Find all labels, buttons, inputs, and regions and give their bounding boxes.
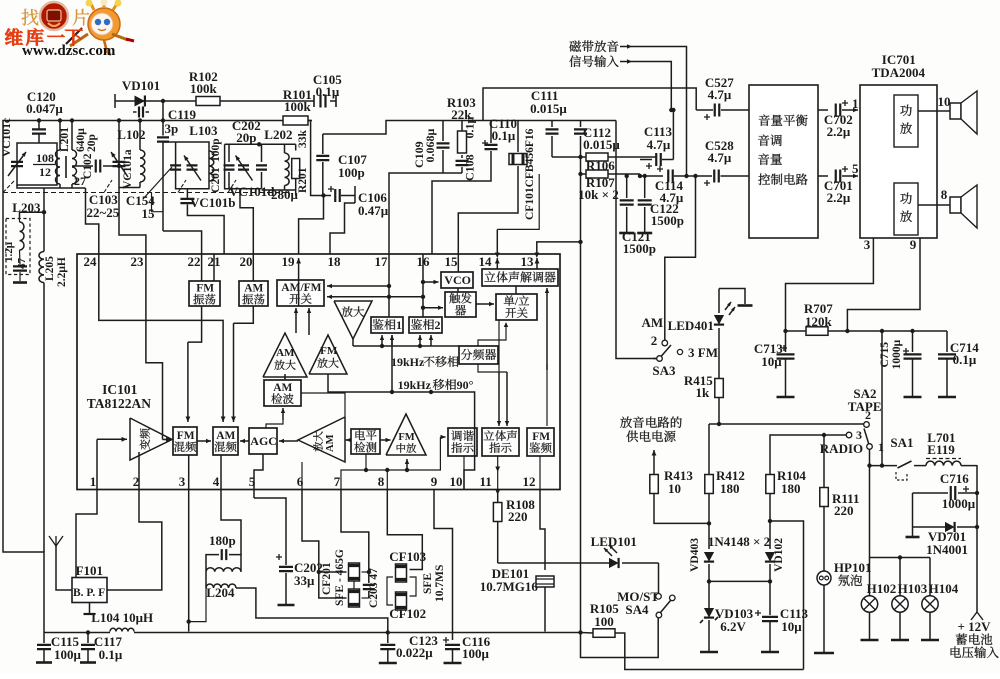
block AGC (249, 428, 277, 454)
pin 6 label bottom (297, 474, 304, 489)
svg-text:L102: L102 (117, 127, 145, 142)
svg-text:4: 4 (213, 474, 220, 489)
svg-text:CF103: CF103 (389, 549, 426, 564)
wire AGC pin5 (254, 454, 263, 489)
zener VD103 6.2V (700, 581, 754, 652)
svg-text:10.7MG16: 10.7MG16 (480, 579, 539, 594)
svg-text:0.1μ: 0.1μ (99, 647, 123, 662)
capacitor C203 47 (363, 568, 380, 608)
capacitor C715 1000u (879, 331, 922, 397)
wire pin21 internal (213, 254, 215, 281)
svg-text:100k: 100k (190, 81, 218, 96)
wire AM select (665, 174, 698, 340)
IC701 block (860, 52, 937, 238)
wire C113 to C527 (672, 110, 674, 160)
capacitor C119 3p (157, 107, 197, 231)
pin 14 label top (479, 254, 493, 269)
wire pin7 to C203 (341, 490, 369, 584)
wire AMamp to AMdet (301, 393, 345, 417)
wire AMFM left top (298, 280, 300, 306)
wire SA3 link (616, 121, 657, 359)
varactor diode VD101 (122, 78, 160, 118)
svg-text:FM: FM (398, 432, 414, 443)
wire pin16 to trigger (423, 306, 443, 310)
diode VD102 (765, 538, 785, 582)
svg-text:0.1μ: 0.1μ (463, 117, 477, 139)
svg-text:AM/FM: AM/FM (281, 282, 321, 294)
svg-text:0.1μ: 0.1μ (953, 352, 977, 367)
svg-text:20p: 20p (86, 134, 98, 152)
svg-text:8: 8 (941, 187, 948, 202)
wire AM mixer out to pin4 (220, 455, 222, 489)
wire R102 to C105 (220, 100, 314, 102)
wire rail2 (323, 121, 616, 135)
svg-text:2: 2 (865, 408, 871, 422)
diode VD403 (689, 538, 714, 582)
block FM OSC (189, 281, 220, 306)
svg-text:AM: AM (325, 434, 336, 452)
resistor R106 (552, 153, 656, 173)
inductor L202 280u (259, 127, 298, 202)
svg-text:FM: FM (196, 283, 214, 295)
capacitor C713 10u (754, 331, 795, 397)
svg-text:2: 2 (435, 318, 441, 332)
amp block 1 (894, 95, 918, 147)
svg-text:1: 1 (852, 96, 859, 111)
wire pin15 to VCO (457, 254, 459, 272)
wire level det bottom (365, 454, 367, 470)
lamp H102 (861, 558, 897, 641)
svg-text:0.068μ: 0.068μ (423, 129, 437, 163)
svg-text:LED401: LED401 (668, 318, 714, 333)
wire pin9 to C116 (434, 490, 453, 641)
svg-text:10: 10 (938, 94, 951, 109)
wire FM disc down (539, 456, 541, 489)
capacitor VC101b (180, 189, 235, 254)
lamp H104 (921, 558, 959, 641)
svg-text:0.015μ: 0.015μ (583, 137, 620, 152)
switch SA4 (617, 563, 675, 618)
svg-text:AM: AM (216, 430, 235, 442)
wire FM osc out (186, 306, 202, 422)
svg-text:CF102: CF102 (389, 606, 426, 621)
svg-text:180: 180 (720, 481, 740, 496)
speaker 8 (918, 185, 977, 228)
wire level det to FM IF (380, 438, 391, 442)
inductor L205 (39, 252, 68, 288)
svg-text:22~25: 22~25 (87, 205, 120, 220)
pointer line C154 (126, 167, 172, 221)
svg-text:20p: 20p (236, 130, 256, 145)
pin 1 label bottom (90, 474, 97, 489)
IC101 label (87, 382, 152, 411)
pin 8 label bottom (378, 474, 385, 489)
svg-text:5: 5 (852, 161, 859, 176)
wire FM mixer out to pin3 (188, 455, 190, 489)
watermark logo mascot (22, 0, 134, 55)
wire pin17 internal (387, 254, 391, 317)
label C202 20p (232, 118, 261, 145)
resonator DE101 (480, 566, 554, 632)
svg-text:20: 20 (240, 254, 253, 269)
svg-text:23: 23 (131, 254, 145, 269)
svg-text:3 FM: 3 FM (688, 345, 718, 360)
capacitor C110 0.1u (432, 116, 517, 254)
block AM OSC (239, 281, 268, 306)
wire pin13 arrow (535, 258, 540, 269)
tank 180p L204 (206, 533, 247, 572)
svg-text:19kHz: 19kHz (391, 355, 425, 369)
capacitor C105 (313, 72, 342, 108)
wire VD link (707, 579, 772, 583)
pin 5 label bottom (249, 474, 256, 489)
svg-text:10μ: 10μ (781, 619, 802, 634)
svg-text:FM: FM (320, 345, 338, 357)
svg-text:E119: E119 (927, 442, 955, 457)
resistor R707 120k (783, 301, 947, 335)
svg-text:AGC: AGC (250, 434, 277, 448)
capacitor C714 0.1u (938, 331, 979, 397)
svg-text:IC101: IC101 (102, 382, 138, 397)
svg-text:3: 3 (864, 237, 871, 252)
wire converter out (163, 437, 172, 442)
svg-text:C108: C108 (463, 154, 477, 181)
svg-text:11: 11 (480, 474, 492, 489)
block F101 BPF (72, 563, 107, 603)
wire pin2 internal (138, 452, 140, 489)
svg-text:19kHz: 19kHz (398, 378, 432, 392)
wire rail to R412 (708, 424, 710, 432)
capacitor C120 (26, 89, 63, 143)
amp block 2 (894, 183, 918, 235)
capacitor C107 100p (316, 134, 367, 196)
svg-text:4.7μ: 4.7μ (708, 87, 732, 102)
svg-text:C715: C715 (879, 342, 891, 368)
pin 2 label bottom (133, 474, 140, 489)
capacitor C527 4.7u (671, 75, 749, 120)
svg-text:15: 15 (142, 206, 156, 221)
wire AM amp apex to AM det (284, 377, 286, 380)
tank3 FM osc frame (164, 142, 209, 189)
LED LED401 (668, 289, 735, 379)
wire AM det to AM amp (284, 374, 286, 379)
svg-text:CF101CFB456F16: CF101CFB456F16 (524, 128, 536, 220)
AM amp triangle bottom (298, 417, 345, 462)
capacitor C702 2.2u (818, 96, 859, 139)
block FM discriminator (527, 428, 554, 456)
svg-text:18: 18 (328, 254, 342, 269)
wire stereo demod to FM disc (545, 288, 549, 426)
svg-text:3: 3 (856, 428, 862, 442)
wire SA2 c1 down (870, 449, 931, 558)
resistor R108 220 (493, 490, 535, 564)
resistor R105 100 (581, 601, 804, 670)
ceramic filter CF101 (458, 121, 536, 255)
svg-text:2: 2 (651, 333, 658, 348)
svg-text:10k × 2: 10k × 2 (578, 187, 619, 202)
wire tuning ind down (463, 456, 465, 489)
wire VCO to trigger (457, 288, 459, 292)
svg-text:4.7μ: 4.7μ (647, 137, 671, 152)
svg-text:C201: C201 (210, 167, 222, 193)
svg-text:VD403: VD403 (689, 538, 701, 572)
svg-text:L103: L103 (189, 123, 218, 138)
wire C109-R103 to pin17 (389, 173, 462, 254)
capacitor C113b 10u (755, 581, 809, 652)
svg-text:F101: F101 (76, 563, 103, 578)
wire AM det top (282, 377, 284, 380)
pin 13 label top (521, 254, 535, 269)
svg-text:TDA2004: TDA2004 (872, 65, 926, 80)
block trigger (445, 292, 476, 317)
svg-text:6: 6 (297, 474, 304, 489)
svg-text:VC101d: VC101d (229, 184, 275, 199)
svg-text:15: 15 (445, 254, 459, 269)
wire AMdet-AGC link (266, 420, 283, 428)
wire C112 col to pin13 (534, 155, 582, 258)
svg-text:9: 9 (910, 237, 917, 252)
svg-text:SA3: SA3 (652, 363, 676, 378)
speaker 10 (918, 91, 977, 134)
wire battery (976, 465, 978, 612)
label 1N4148x2 (708, 534, 770, 549)
svg-text:0.022μ: 0.022μ (396, 645, 433, 660)
svg-text:1N4148 × 2: 1N4148 × 2 (708, 534, 770, 549)
switch SA2 (820, 386, 884, 456)
wire R106 col to pin14 (495, 174, 539, 258)
inductor L204 (206, 572, 388, 633)
resistor R107 10kx2 (578, 170, 640, 202)
resistor R102 (189, 69, 220, 106)
svg-text:L204: L204 (206, 585, 235, 600)
wire mono switch down (497, 320, 501, 426)
block AM detector (264, 380, 301, 406)
wire AM FM amp arrows to switch (294, 308, 311, 335)
svg-text:10: 10 (450, 474, 463, 489)
block mono/stereo switch (496, 294, 537, 320)
wire lineB to switch (327, 295, 425, 299)
capacitor C716 1000u (913, 471, 980, 511)
svg-text:280μ: 280μ (271, 187, 299, 202)
wire CF103 CF102 link (387, 577, 416, 605)
svg-text:9: 9 (431, 474, 438, 489)
label 19kHz no phase shift (391, 355, 458, 369)
svg-text:2.2μ: 2.2μ (827, 124, 851, 139)
capacitor C528 4.7u (687, 138, 750, 186)
svg-text:90°: 90° (457, 378, 474, 392)
wire pin18 external (330, 203, 355, 254)
svg-text:10μ: 10μ (761, 354, 782, 369)
label 640u 20p C102 (75, 128, 98, 179)
volume control block (749, 85, 818, 238)
svg-text:0.047μ: 0.047μ (26, 101, 63, 116)
wire level det to AM amp (346, 438, 351, 442)
wire VD101 to R102 (195, 100, 197, 102)
wire pin7-8 bus (341, 435, 446, 489)
capacitor C202 33u (252, 490, 323, 605)
svg-text:6.2V: 6.2V (720, 619, 746, 634)
wire pin20 internal (252, 254, 254, 281)
wire R111 top (822, 433, 826, 488)
capacitor C202/20p on junction (256, 144, 267, 189)
svg-text:24: 24 (84, 254, 98, 269)
svg-text:B. P. F: B. P. F (73, 587, 105, 599)
variable capacitor VC101c (8, 152, 26, 176)
svg-text:1000μ: 1000μ (891, 339, 903, 369)
ceramic filter CF201a (321, 549, 360, 607)
inductor L201 transformer (56, 127, 77, 188)
svg-text:1: 1 (396, 318, 402, 332)
antenna (49, 536, 72, 590)
wire pin3 down (188, 490, 190, 632)
wire signal input vert (670, 62, 672, 110)
svg-text:7: 7 (334, 474, 341, 489)
wire AM osc out2 (231, 306, 253, 422)
tank4 AM osc frame (225, 142, 262, 189)
block divider (459, 346, 498, 364)
capacitor C114 4.7u (638, 166, 686, 205)
wire pin1 internal (97, 437, 127, 489)
block level detect (351, 429, 380, 454)
svg-text:180: 180 (781, 481, 801, 496)
wire phase line2 (328, 374, 475, 489)
pin 23 label top (131, 254, 145, 269)
wire tuner common (42, 188, 46, 552)
pin 18 label top (328, 254, 342, 269)
block AM mixer (213, 427, 238, 455)
power tap (719, 289, 753, 306)
wire pin12 to DE101 (540, 490, 545, 571)
svg-text:1: 1 (90, 474, 97, 489)
capacitor C123 0.022u (379, 633, 439, 664)
svg-text:H104: H104 (929, 581, 959, 596)
pin 16 label top (417, 254, 431, 269)
switch SA1 (867, 435, 926, 480)
svg-text:12: 12 (523, 474, 536, 489)
resistor R101 100k (283, 87, 312, 125)
svg-text:VD102: VD102 (773, 538, 785, 572)
resistor R104 180 (766, 468, 807, 549)
resistor R412 180 (705, 424, 745, 549)
block VCO (441, 272, 473, 288)
wire top rail (3, 121, 312, 633)
label 19kHz phase shift 90 (398, 378, 474, 392)
block FM mixer (173, 427, 197, 455)
svg-text:220: 220 (834, 503, 854, 518)
neon bulb HP101 (814, 560, 871, 653)
capacitor fixed tank4 (224, 144, 235, 189)
wire arrows phase2 (390, 335, 394, 394)
svg-text:C119: C119 (168, 107, 197, 122)
capacitor C122 1500p (637, 174, 684, 233)
amp triangle (inverted) (334, 301, 372, 339)
label C111 (530, 88, 567, 116)
wire C102 tank to pin24 (72, 188, 99, 254)
gang dashed line (3, 180, 290, 193)
wire pin14 arrow (495, 258, 500, 269)
svg-text:AM: AM (642, 315, 664, 330)
wire pin24 internal (99, 254, 226, 422)
pin 20 label top (240, 254, 253, 269)
wire arrows to phase dets (380, 335, 422, 346)
pin 11 label bottom (480, 474, 492, 489)
svg-text:4.7μ: 4.7μ (708, 150, 732, 165)
label 27 (74, 174, 86, 188)
svg-text:1: 1 (878, 440, 884, 454)
resistor R201 33k (292, 130, 309, 196)
wire pin23 internal (146, 254, 163, 437)
svg-text:HP101: HP101 (834, 560, 872, 575)
wire C112 col down (578, 240, 582, 633)
svg-text:2.2μ: 2.2μ (827, 190, 851, 205)
inductor L104 tap (84, 603, 154, 626)
wire R108 to LED (498, 562, 609, 564)
block stereo indicator (482, 428, 519, 456)
FM IF amp triangle (386, 414, 426, 455)
svg-text:100p: 100p (210, 138, 222, 162)
svg-text:+ 12V: + 12V (958, 619, 992, 634)
resistor R415 1k (684, 373, 723, 424)
capacitor C115 100u (36, 633, 82, 663)
pin 4 label bottom (213, 474, 220, 489)
svg-text:33μ: 33μ (294, 573, 315, 588)
wire AGC to AMmix (240, 439, 249, 443)
svg-text:100: 100 (594, 614, 614, 629)
wire pin8 to CF103 (387, 490, 422, 570)
svg-text:0.015μ: 0.015μ (530, 101, 567, 116)
wire pin4 to tank (221, 490, 241, 555)
capacitor C116 100u (443, 634, 491, 663)
ceramic filter CF102 (389, 592, 426, 621)
svg-text:1000μ: 1000μ (942, 496, 976, 511)
block phase det 2 (409, 317, 442, 333)
block phase det 1 (371, 317, 403, 333)
signal input (569, 55, 673, 112)
wire stereo demod to mono switch (515, 286, 517, 294)
tape playback input (569, 41, 688, 179)
wire AMamp to AGC (279, 439, 298, 443)
FM amp triangle (309, 335, 347, 374)
svg-text:2.2μH: 2.2μH (56, 257, 68, 287)
wire trigger to mono switch (476, 302, 494, 306)
wire AM det bottom arrow (281, 408, 285, 420)
svg-text:VC101a: VC101a (122, 149, 134, 189)
svg-text:13: 13 (521, 254, 535, 269)
wire C119 to pin22 (152, 193, 202, 255)
block AM/FM switch (277, 280, 324, 306)
AM amp triangle (263, 333, 307, 377)
svg-text:100k: 100k (284, 99, 312, 114)
svg-text:L201: L201 (59, 127, 71, 152)
wire C119 node (161, 99, 165, 136)
svg-text:L104 10μH: L104 10μH (91, 610, 153, 625)
capacitor C117 0.1u (80, 630, 123, 662)
big box C111 top (483, 88, 696, 121)
svg-text:H102: H102 (867, 581, 897, 596)
pin 19 label top (282, 254, 296, 269)
variable capacitor VC101a (111, 149, 134, 189)
label SFE 10.7MS (422, 565, 446, 602)
svg-text:L202: L202 (264, 127, 292, 142)
svg-text:100μ: 100μ (54, 647, 82, 662)
lamp H103 (891, 555, 928, 640)
switch SA3 (642, 315, 718, 378)
pin 22 label top (188, 254, 201, 269)
capacitor C112 0.015u (574, 121, 620, 158)
svg-text:17: 17 (375, 254, 389, 269)
svg-text:10: 10 (668, 481, 681, 496)
svg-text:L205: L205 (44, 256, 56, 281)
